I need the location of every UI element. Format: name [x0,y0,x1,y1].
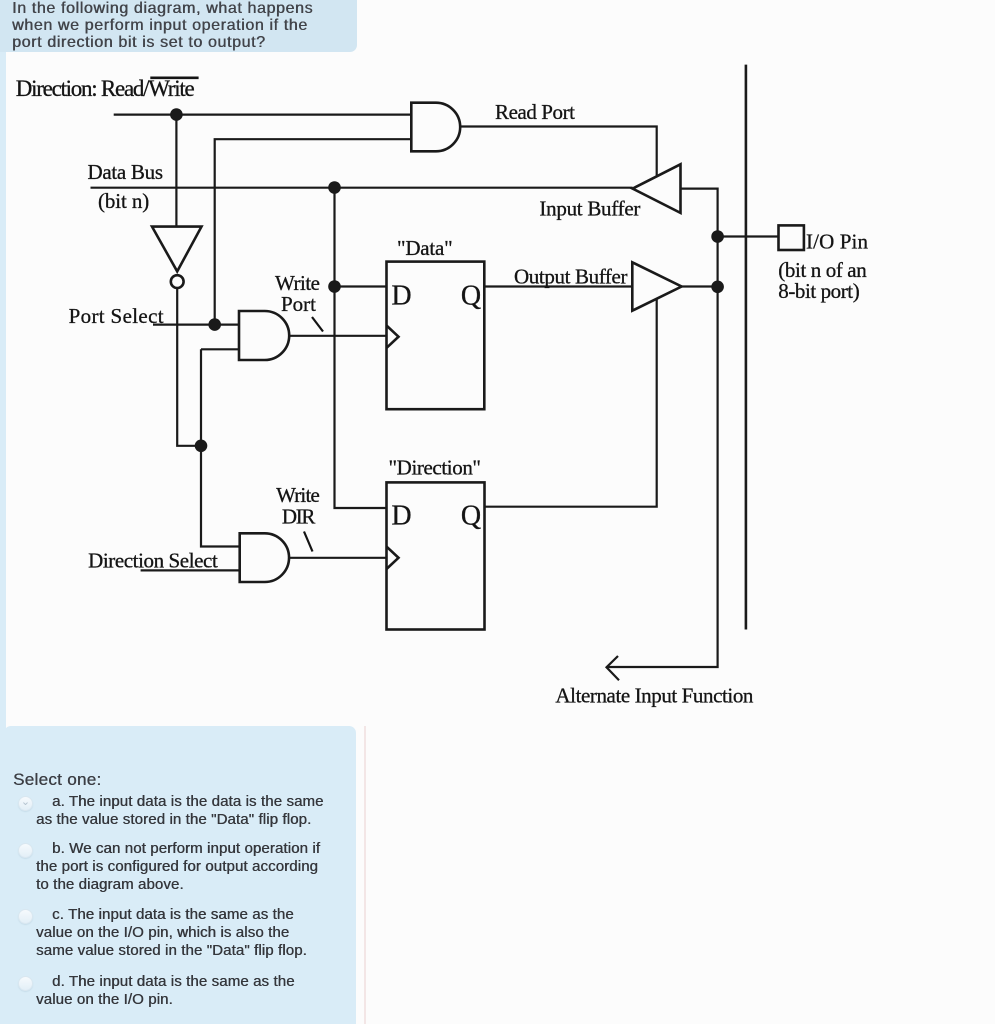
output buffer triangle [632,262,681,310]
flip flop direction [387,482,485,629]
clock triangle direction [387,547,399,569]
svg-text:"Direction": "Direction" [389,456,482,480]
wire write dir output to direction clock [289,557,386,559]
port boundary vertical line [745,65,748,630]
svg-text:(bit n): (bit n) [98,189,149,213]
radio a [18,796,33,811]
radio b [18,843,33,858]
wire inverter output down to junction [177,288,201,446]
inverter bubble [171,275,184,288]
question box [0,0,357,52]
svg-text:Alternate Input Function: Alternate Input Function [555,684,754,708]
svg-text:DIR: DIR [282,505,316,529]
overline write [150,77,198,80]
svg-text:D: D [391,280,411,311]
and gate write port [239,311,289,360]
junction dot output buffer [711,281,724,294]
svg-text:Q: Q [461,501,481,532]
wire direction select [141,569,240,571]
wire inverter input [175,115,177,227]
pointer write port [312,317,323,332]
svg-text:Port: Port [281,292,316,316]
svg-text:Data Bus: Data Bus [88,160,164,184]
wire output buffer to junction [682,285,718,287]
svg-text:"Data": "Data" [397,236,453,260]
wire io pin [718,235,779,237]
pointer write dir [304,532,313,552]
svg-text:Input Buffer: Input Buffer [539,196,640,220]
radio c [18,909,33,924]
svg-text:Q: Q [461,280,481,311]
junction dot data D [328,280,341,293]
wire data D input [335,285,387,287]
circuit schematic [0,0,995,726]
wire write port lower input [201,348,239,350]
clock triangle data [387,326,399,348]
junction dot io pin [711,230,724,243]
svg-text:Direction: Read/Write: Direction: Read/Write [16,76,195,101]
wire direction Q to output buffer enable [485,300,657,507]
svg-text:D: D [391,501,411,532]
wire data Q to output buffer [484,285,633,287]
wire AND top gate second input [215,139,412,324]
wire data bus to flip flops vertical [335,188,387,509]
junction dot port select [208,318,221,331]
and gate read port [411,103,460,152]
svg-text:Port Select: Port Select [69,304,164,328]
junction dot data bus [328,181,341,194]
io pin square [779,225,804,250]
svg-text:Write: Write [276,483,320,507]
wire Read/Write line [114,113,412,115]
svg-text:Read Port: Read Port [495,100,575,124]
and gate write dir [240,533,289,582]
input buffer triangle [633,164,681,213]
wire write port output to data clock [289,335,387,337]
wire read port output to input buffer enable [461,127,657,177]
svg-text:Direction Select: Direction Select [88,549,218,573]
junction dot inverter [195,440,208,453]
left blue strip [0,0,6,1024]
junction dot read write [170,108,183,121]
flip flop data [387,262,485,410]
wire data bus [91,187,633,189]
radio d [18,976,33,991]
answer panel [4,726,356,1024]
svg-text:I/O Pin: I/O Pin [806,230,869,254]
inverter triangle [152,227,202,272]
arrowhead alternate input [607,656,620,680]
wire junction vertical to write gates [201,349,240,546]
svg-text:Output Buffer: Output Buffer [514,265,628,289]
wire input buffer to pin vertical [607,189,718,667]
wire port select [153,324,239,326]
svg-text:8-bit port): 8-bit port) [778,279,859,303]
